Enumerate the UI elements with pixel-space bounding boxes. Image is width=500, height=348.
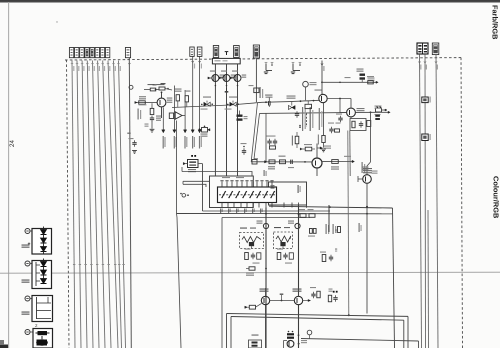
svg-text:2: 2 <box>35 323 38 328</box>
svg-text:Farb/RGB: Farb/RGB <box>491 5 500 40</box>
svg-text:Colour/RGB: Colour/RGB <box>492 176 500 218</box>
svg-text:24: 24 <box>9 140 16 147</box>
